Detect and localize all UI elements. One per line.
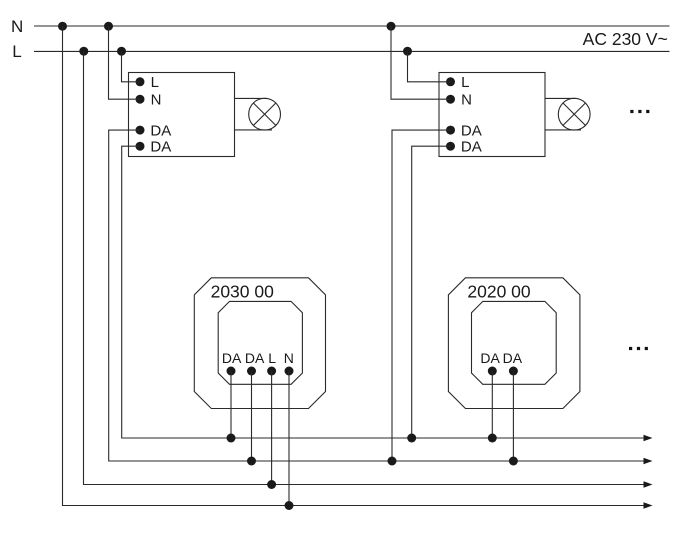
wire module1 L to line3 (271, 371, 273, 485)
U1 pin label N (151, 92, 162, 109)
wire module1 DA1 to line1 (230, 371, 232, 438)
svg-text:N: N (461, 92, 472, 109)
lamp E1 top lead (235, 97, 267, 99)
junction N-line dot 3 (387, 22, 396, 31)
svg-text:DA: DA (150, 122, 171, 139)
svg-text:DA: DA (503, 350, 523, 366)
svg-text:2020 00: 2020 00 (467, 281, 531, 301)
junction line4 module1 (285, 501, 294, 510)
svg-text:DA: DA (222, 350, 242, 366)
junction line2 U2 (388, 457, 397, 466)
arrowhead line2 (644, 458, 653, 465)
junction line3 module1 (267, 480, 276, 489)
wire L feed to U1 (122, 51, 141, 82)
wire N mains line (34, 25, 670, 27)
junction N-line dot 2 (104, 22, 113, 31)
svg-text:AC 230 V~: AC 230 V~ (583, 29, 668, 49)
label 2020 00 (467, 281, 531, 301)
junction line1 module2 (488, 434, 497, 443)
U2 terminal DA1 dot (446, 126, 455, 135)
node L label (12, 42, 21, 61)
node N label (11, 17, 23, 36)
wire U2 DA2 down to bus line1 (412, 146, 451, 438)
U1 terminal DA1 dot (136, 126, 145, 135)
U1 terminal N dot (136, 95, 145, 104)
svg-text:L: L (12, 42, 21, 61)
svg-text:L: L (268, 350, 276, 366)
module1 pin label L (268, 350, 276, 366)
U1 pin label DA1 (150, 122, 171, 139)
lamp E1 bottom lead (235, 129, 273, 131)
svg-text:DA: DA (480, 350, 500, 366)
module1 terminal N dot (285, 367, 294, 376)
lamp E2 top lead (545, 97, 576, 99)
module1 pin label DA2 (245, 350, 265, 366)
wire module1 DA2 to line2 (251, 371, 253, 461)
U1 pin label DA2 (150, 139, 171, 156)
svg-text:L: L (151, 74, 159, 91)
lamp E2 (558, 98, 590, 130)
U2 pin label DA1 (461, 122, 482, 139)
module1 terminal DA2 dot (247, 367, 256, 376)
label 2030 00 (211, 281, 275, 301)
wire U1 DA1 to bus DA+ (line2) (109, 130, 645, 461)
svg-text:DA: DA (461, 122, 482, 139)
wire N feed to U1 (109, 26, 141, 99)
wire N feed to U2 (391, 26, 451, 99)
junction line2 module1 (247, 457, 256, 466)
svg-text:DA: DA (461, 139, 482, 156)
ballast U2 box (439, 73, 545, 157)
U2 pin label DA2 (461, 139, 482, 156)
arrowhead line3 (644, 481, 653, 488)
wire module2 DA1 to line1 (491, 371, 493, 438)
module2 terminal DA2 dot (509, 367, 518, 376)
wire U1 DA2 to bus DA- (line1) (122, 146, 645, 438)
module1 pin label DA1 (222, 350, 242, 366)
arrowhead line4 (644, 502, 653, 509)
wire L mains line (34, 50, 670, 52)
svg-text:DA: DA (150, 139, 171, 156)
wire bus line3 from L (84, 51, 645, 484)
lamp E2 bottom lead (545, 129, 581, 131)
junction L-line dot 1 (79, 47, 88, 56)
wire L feed to U2 (408, 51, 451, 82)
ellipsis continuation top (630, 110, 649, 113)
module2 pin label DA2 (503, 350, 523, 366)
junction line1 U2 (407, 434, 416, 443)
junction N-line dot 1 (58, 22, 67, 31)
wire bus line4 from N (63, 26, 645, 506)
U2 terminal DA2 dot (446, 142, 455, 151)
wire U2 DA1 down to bus line2 (392, 130, 451, 461)
module2 terminal DA1 dot (488, 367, 497, 376)
module1 pin label N (284, 350, 294, 366)
svg-text:L: L (461, 74, 469, 91)
junction L-line dot 3 (403, 47, 412, 56)
junction line1 module1 (227, 434, 236, 443)
arrowhead line1 (644, 435, 653, 442)
label AC 230 V~ (583, 29, 668, 49)
ellipsis continuation middle (629, 347, 648, 350)
U2 pin label L (461, 74, 469, 91)
svg-text:N: N (151, 92, 162, 109)
U1 pin label L (151, 74, 159, 91)
control unit 2020 00 inner frame (472, 301, 557, 384)
control unit 2020 00 outer frame (448, 278, 580, 409)
module1 terminal L dot (267, 367, 276, 376)
U2 terminal N dot (446, 95, 455, 104)
junction line2 module2 (509, 457, 518, 466)
svg-text:2030 00: 2030 00 (211, 281, 275, 301)
junction L-line dot 2 (117, 47, 126, 56)
module1 terminal DA1 dot (227, 367, 236, 376)
module2 pin label DA1 (480, 350, 500, 366)
U1 terminal DA2 dot (136, 142, 145, 151)
lamp E1 (249, 98, 281, 130)
U2 terminal L dot (446, 77, 455, 86)
control unit 2030 00 outer frame (194, 278, 325, 409)
wire module1 N to line4 (288, 371, 290, 506)
svg-text:N: N (284, 350, 294, 366)
svg-text:DA: DA (245, 350, 265, 366)
control unit 2030 00 inner frame (218, 301, 302, 384)
svg-text:N: N (11, 17, 23, 36)
U2 pin label N (461, 92, 472, 109)
ballast U1 box (129, 73, 235, 157)
U1 terminal L dot (136, 77, 145, 86)
wire module2 DA2 to line2 (512, 371, 514, 461)
